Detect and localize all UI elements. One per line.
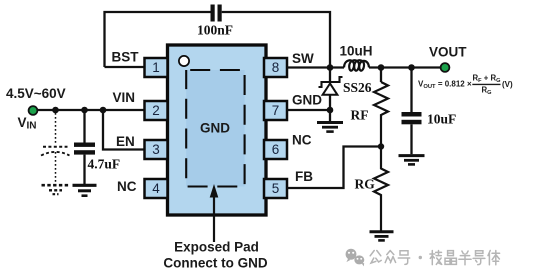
svg-text:GND: GND: [200, 121, 230, 136]
svg-text:8: 8: [272, 60, 280, 75]
wire dashed to ground: [55, 152, 57, 183]
exposed pad (dashed): [186, 70, 244, 187]
ground (C_IN): [73, 184, 97, 187]
diode D1 triangle (anode, pointing up): [323, 84, 338, 95]
svg-text:Exposed Pad: Exposed Pad: [174, 240, 259, 255]
wire to ground: [410, 124, 412, 154]
capacitor C_IN 4.7uF branch wire: [83, 110, 85, 143]
svg-text:4: 4: [152, 181, 160, 196]
svg-text:3: 3: [152, 142, 160, 157]
ground (C_OUT): [399, 154, 425, 157]
capacitor C_OUT 10uF branch wire: [410, 68, 412, 113]
capacitor C_IN plates: [74, 143, 95, 147]
middle dot: [419, 256, 422, 259]
junction RF branch: [378, 64, 385, 71]
junction dot (optional cap branch): [52, 107, 59, 114]
svg-text:7: 7: [272, 103, 280, 118]
ground (dashed optional): [42, 184, 70, 187]
svg-text:Connect to GND: Connect to GND: [163, 256, 267, 271]
pin 2: [145, 101, 168, 120]
pin 6: [264, 140, 287, 159]
wire: inductor to VOUT: [369, 66, 441, 68]
resistor RG zigzag: [374, 147, 388, 231]
svg-text:4.5V~60V: 4.5V~60V: [6, 86, 66, 101]
exposed pad arrow: [213, 195, 215, 242]
pin 8: [264, 58, 287, 77]
svg-text:4.7uF: 4.7uF: [88, 157, 121, 172]
node VOUT terminal (green): [441, 63, 450, 72]
ground (RG): [370, 230, 394, 233]
svg-text:RG: RG: [355, 177, 376, 192]
junction FB node: [378, 143, 384, 149]
diode D1 SS26 wire from SW node: [329, 68, 331, 83]
svg-text:100nF: 100nF: [197, 23, 233, 38]
svg-text:FB: FB: [295, 169, 313, 184]
capacitor (optional, dashed) plates: [43, 146, 68, 148]
formula VOUT = 0.812 x (RF+RG)/RG (V): [418, 74, 513, 97]
junction dot (4.7uF branch): [81, 107, 88, 114]
char gong: [370, 251, 381, 264]
capacitor C_BST 100nF plates: [211, 5, 215, 22]
wire: EN branch: [103, 110, 146, 150]
IC U1 body (buck converter, SOIC-8): [168, 45, 267, 215]
wire: down to ground: [329, 110, 331, 122]
diode D1 schottky cathode bar: [319, 77, 343, 87]
pin 7: [264, 101, 287, 120]
pin 5: [264, 179, 287, 198]
wire: bootstrap top rail BST to SW: [105, 12, 331, 67]
svg-text:10uF: 10uF: [427, 112, 456, 127]
wire: SW to inductor: [287, 66, 344, 68]
fraction bar: [472, 83, 500, 85]
svg-text:GND: GND: [292, 93, 322, 108]
wire: diode anode to GND rail: [329, 95, 331, 112]
capacitor (optional, dashed) branch wire: [55, 113, 57, 145]
resistor RF zigzag: [374, 82, 388, 147]
node VIN terminal (green): [29, 106, 38, 115]
wire: BST pin to rail: [105, 66, 147, 68]
char dao: [473, 251, 485, 265]
svg-text:EN: EN: [116, 134, 135, 149]
char ti: [488, 251, 500, 265]
watermark wechat icon: [346, 249, 365, 267]
svg-text:1: 1: [152, 60, 160, 75]
svg-text:6: 6: [272, 142, 280, 157]
node VIN input wire: [36, 109, 146, 111]
resistor RF wire from output rail: [380, 68, 382, 83]
char jing: [445, 251, 456, 265]
watermark text (hand-drawn CJK strokes): [370, 251, 499, 265]
char zhong: [385, 251, 395, 263]
wire to ground: [83, 155, 85, 184]
pin 1: [145, 58, 168, 77]
pin 4: [145, 179, 168, 198]
wire: FB pin to divider node: [287, 147, 381, 189]
svg-text:NC: NC: [117, 179, 137, 194]
svg-text:VIN: VIN: [113, 90, 136, 105]
svg-text:10uH: 10uH: [340, 44, 373, 59]
junction SW node: [327, 64, 334, 71]
capacitor C_OUT plates: [402, 112, 422, 117]
junction GND node: [327, 107, 334, 114]
pin-1 indicator circle: [179, 56, 189, 66]
svg-text:5: 5: [272, 181, 280, 196]
ground (diode): [317, 121, 343, 124]
char hao: [398, 251, 409, 265]
svg-text:VOUT: VOUT: [429, 45, 467, 60]
inductor L1 10uH: [344, 60, 369, 70]
junction dot (EN branch): [100, 107, 107, 114]
svg-text:NC: NC: [292, 133, 312, 148]
char leng: [430, 251, 442, 265]
svg-text:RF: RF: [351, 108, 369, 123]
pin 3: [145, 140, 168, 159]
svg-text:BST: BST: [112, 50, 140, 65]
svg-text:SS26: SS26: [343, 80, 372, 95]
svg-text:SW: SW: [292, 51, 314, 66]
char ban: [459, 251, 471, 265]
svg-text:(V): (V): [502, 80, 513, 89]
svg-text:2: 2: [152, 103, 160, 118]
wire: GND pin to diode anode node: [287, 109, 330, 111]
junction 10uF branch: [408, 64, 415, 71]
